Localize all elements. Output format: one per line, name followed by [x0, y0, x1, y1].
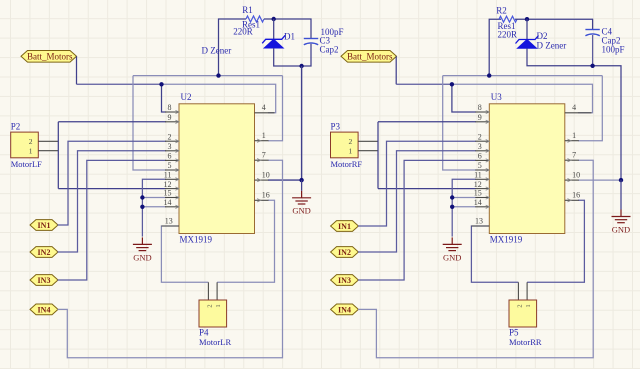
- wire U3 pin1 net horizontal: [443, 75, 603, 77]
- svg-text:5: 5: [168, 161, 172, 170]
- svg-text:1: 1: [262, 131, 266, 140]
- svg-text:MX1919: MX1919: [180, 234, 213, 244]
- svg-text:13: 13: [475, 217, 483, 226]
- wire U3 pin 15 branch: [452, 197, 476, 199]
- svg-text:D2: D2: [537, 31, 548, 41]
- IC U3 MX1919 body: [489, 104, 565, 234]
- U2 left pin numbers: [164, 103, 173, 225]
- wire R2 left leg riser: [489, 19, 501, 75]
- wire U3 pin1 net: drop to pin 5: [443, 76, 476, 170]
- svg-text:1: 1: [572, 131, 576, 140]
- svg-text:7: 7: [572, 150, 576, 159]
- svg-text:IN4: IN4: [338, 305, 351, 314]
- wire D2 cathode down and right: [527, 48, 621, 180]
- svg-text:14: 14: [164, 198, 172, 207]
- svg-text:IN3: IN3: [338, 276, 351, 285]
- wire P3 pin1 to U3 pin 12: [378, 188, 476, 190]
- junction D1 top junction: [272, 17, 276, 21]
- wire P2 riser (pins 2/1 vertical): [57, 122, 59, 189]
- port IN3 (l3): [30, 275, 58, 286]
- svg-text:1: 1: [349, 147, 353, 156]
- wire U2 pin 15 branch: [142, 197, 166, 199]
- wire P2 pin1 to U2 pin 12: [58, 188, 166, 190]
- wire Batt_Motors right: port drop: [395, 56, 397, 84]
- wire drop to U2 pin 10 and GND: [268, 66, 302, 180]
- port IN4 (r4p): [331, 304, 359, 315]
- svg-text:R1: R1: [242, 5, 253, 15]
- junction D2 top junction: [525, 17, 529, 21]
- svg-text:IN1: IN1: [38, 221, 51, 230]
- wire D1 cathode down and right: [274, 44, 311, 66]
- svg-text:2: 2: [478, 132, 482, 141]
- svg-text:7: 7: [262, 150, 266, 159]
- svg-text:GND: GND: [292, 206, 310, 216]
- wire D1 anode riser: [273, 19, 275, 39]
- P2 pin stubs: [38, 141, 58, 150]
- ground under U2 pin 10: [292, 191, 311, 204]
- svg-text:1: 1: [29, 147, 33, 156]
- connector P2: [11, 132, 39, 158]
- wire U2 pin 13 to P4 pin 2: [161, 226, 208, 282]
- svg-text:13: 13: [165, 217, 173, 226]
- wire R1 left leg riser: [219, 19, 247, 76]
- resistor R2: [499, 16, 517, 22]
- wire IN3 left to U2 pin 6: [58, 160, 167, 280]
- zener diode D1: [262, 35, 285, 48]
- svg-text:10: 10: [572, 170, 580, 179]
- svg-text:4: 4: [262, 103, 266, 112]
- svg-text:15: 15: [164, 189, 172, 198]
- svg-text:D1: D1: [284, 32, 295, 42]
- wire U3 pin 13 to P5 pin 2: [471, 226, 518, 282]
- connector P4: [199, 300, 227, 327]
- U2 right pin numbers: [262, 103, 270, 200]
- junction Batt/pin8 branch: [159, 82, 163, 86]
- svg-text:P4: P4: [199, 328, 209, 338]
- wire IN1 left to U2 pin 2: [58, 141, 167, 225]
- svg-text:8: 8: [478, 103, 482, 112]
- wire U2 pin1 net horizontal: [133, 75, 283, 77]
- svg-text:220R: 220R: [498, 30, 518, 40]
- svg-text:12: 12: [474, 180, 482, 189]
- wire IN1 right to U3 pin 2: [358, 141, 476, 226]
- svg-text:IN2: IN2: [38, 248, 51, 257]
- svg-text:Batt_Motors: Batt_Motors: [27, 51, 73, 61]
- wire Batt_Motors left: horizontal run: [77, 83, 162, 85]
- svg-text:2: 2: [207, 304, 214, 307]
- U3 right pin stubs and markers: [565, 113, 592, 202]
- svg-text:U2: U2: [181, 92, 192, 102]
- junction pin15 gnd junction: [140, 195, 144, 199]
- P4 pin 2 stub: [207, 282, 209, 300]
- svg-text:3: 3: [478, 142, 482, 151]
- svg-text:220R: 220R: [233, 26, 253, 36]
- svg-text:P2: P2: [11, 122, 21, 132]
- svg-text:D Zener: D Zener: [537, 40, 567, 50]
- U3 left pin stubs and markers: [471, 110, 489, 226]
- svg-text:15: 15: [474, 189, 482, 198]
- IC U2 MX1919 body: [179, 104, 255, 234]
- svg-text:4: 4: [572, 103, 576, 112]
- wire Batt_Motors right: across to pin-4 riser: [452, 84, 593, 113]
- port IN2 (r2p): [331, 247, 359, 258]
- svg-text:R2: R2: [496, 6, 507, 16]
- wire Batt_Motors left: port drop: [76, 56, 78, 84]
- svg-text:12: 12: [164, 180, 172, 189]
- svg-text:16: 16: [262, 191, 270, 200]
- svg-text:6: 6: [168, 152, 172, 161]
- wire IN2 left to U2 pin 3: [58, 151, 167, 252]
- wire U3 pin 16 to P5 pin 1: [527, 200, 584, 282]
- wire IN3 right to U3 pin 6: [358, 160, 476, 280]
- power port Batt_Motors (left): [21, 51, 77, 63]
- svg-text:6: 6: [478, 152, 482, 161]
- wire Batt_Motors right: drop to U3 pin 8: [452, 84, 476, 112]
- svg-text:3: 3: [168, 142, 172, 151]
- capacitor C3: [304, 39, 318, 45]
- wire Batt_Motors left: across to pin-4 riser: [162, 84, 276, 113]
- power port Batt_Motors (right): [341, 51, 397, 63]
- svg-text:9: 9: [478, 113, 482, 122]
- P5 pin 1 stub: [526, 282, 528, 300]
- svg-text:IN4: IN4: [38, 305, 51, 314]
- wire IN4 left to bottom rail to U2 pin 7: [58, 160, 283, 358]
- svg-text:MotorRR: MotorRR: [509, 337, 542, 347]
- svg-text:Batt_Motors: Batt_Motors: [347, 51, 393, 61]
- svg-text:2: 2: [517, 304, 524, 307]
- ground under U2 left: [133, 237, 152, 250]
- svg-text:16: 16: [572, 191, 580, 200]
- wire U3 pin 11 to gnd vertical: [452, 179, 476, 236]
- svg-text:D Zener: D Zener: [202, 46, 232, 56]
- svg-text:2: 2: [29, 137, 33, 146]
- junction R2 leg on pin1 net: [487, 73, 491, 77]
- wire U2 pin 14 branch: [142, 206, 166, 208]
- svg-text:11: 11: [474, 171, 482, 180]
- svg-text:IN1: IN1: [338, 222, 351, 231]
- junction Batt/pin8 branch right: [450, 82, 454, 86]
- wire D2 anode riser: [526, 19, 528, 39]
- wire U3 pin1 net: riser to pin 1: [578, 76, 602, 141]
- junction U2 pin10 junction: [299, 178, 303, 182]
- wire U3 pin 14 branch: [452, 206, 476, 208]
- wire R1 right to D1 and C3 top: [264, 19, 311, 38]
- svg-text:P5: P5: [509, 328, 519, 338]
- wire U2 pin 11 to gnd vertical: [142, 179, 166, 236]
- svg-text:1: 1: [525, 304, 532, 307]
- port IN4 (l4): [30, 304, 58, 315]
- junction pin14 gnd junction right: [450, 205, 454, 209]
- junction C4 bottom junction: [590, 64, 594, 68]
- port IN1 (l1): [30, 220, 58, 231]
- wire Batt_Motors right: horizontal run: [396, 83, 452, 85]
- wire GND stem under pin10: [301, 180, 303, 191]
- svg-text:Cap2: Cap2: [320, 45, 339, 55]
- junction U3 pin10 junction: [619, 178, 623, 182]
- wire U2 pin 16 to P4 pin 1: [217, 200, 274, 282]
- svg-text:5: 5: [478, 161, 482, 170]
- connector P5: [509, 300, 537, 327]
- svg-text:IN2: IN2: [338, 248, 351, 257]
- wire C4 bottom stem: [592, 35, 594, 66]
- svg-text:IN3: IN3: [38, 276, 51, 285]
- P4 pin 1 stub: [216, 282, 218, 300]
- svg-text:GND: GND: [612, 224, 630, 234]
- ground under U3 pin 10: [612, 210, 631, 223]
- svg-text:U3: U3: [491, 92, 502, 102]
- P5 pin 2 stub: [517, 282, 519, 300]
- svg-text:MotorLR: MotorLR: [199, 337, 231, 347]
- connector P3: [331, 132, 359, 158]
- svg-text:1: 1: [215, 304, 222, 307]
- svg-text:11: 11: [164, 171, 172, 180]
- wire U3 pin10 wire: [578, 179, 621, 181]
- U3 left pin numbers: [474, 103, 483, 225]
- svg-text:2: 2: [168, 132, 172, 141]
- junction pin15 gnd junction right: [450, 195, 454, 199]
- P3 pin stubs: [358, 141, 378, 150]
- wire P3 riser (pins 2/1 vertical): [377, 122, 379, 189]
- ground under U3 left: [443, 237, 462, 250]
- svg-text:9: 9: [168, 113, 172, 122]
- svg-text:MX1919: MX1919: [490, 234, 523, 244]
- svg-text:P3: P3: [331, 122, 341, 132]
- wire IN4 right to bottom rail to U3 pin 7: [358, 160, 593, 358]
- junction R1 leg on pin1 net: [216, 73, 220, 77]
- wire IN2 right to U3 pin 3: [358, 151, 476, 252]
- resistor R1: [246, 16, 264, 22]
- port IN2 (l2): [30, 247, 58, 258]
- svg-text:MotorRF: MotorRF: [331, 159, 363, 169]
- svg-text:100pF: 100pF: [602, 44, 625, 54]
- wire P2 pin2 to U2 pin 9: [58, 121, 166, 123]
- U3 right pin numbers: [572, 103, 580, 200]
- wire P3 pin2 to U3 pin 9: [378, 121, 476, 123]
- junction pin14 gnd junction: [140, 205, 144, 209]
- svg-text:10: 10: [262, 170, 270, 179]
- svg-text:8: 8: [168, 103, 172, 112]
- wire Batt_Motors left: drop to U2 pin 8: [162, 84, 167, 112]
- port IN3 (r3p): [331, 275, 359, 286]
- port IN1 (r1p): [331, 221, 359, 232]
- wire U2 pin1 net: riser to pin 1: [268, 76, 283, 141]
- svg-text:GND: GND: [443, 252, 461, 262]
- svg-text:2: 2: [349, 137, 353, 146]
- U2 left pin stubs and markers: [161, 110, 179, 226]
- U2 right pin stubs and markers: [255, 113, 275, 202]
- capacitor C4: [585, 30, 599, 36]
- svg-text:GND: GND: [133, 252, 151, 262]
- wire U2 pin1 net: drop to pin 5: [133, 76, 166, 170]
- wire R2 right to D2 and C4 top: [515, 19, 593, 29]
- svg-text:14: 14: [474, 198, 482, 207]
- zener diode D2: [516, 36, 539, 49]
- svg-text:MotorLF: MotorLF: [11, 159, 42, 169]
- wire GND stem under U3 pin10: [620, 180, 622, 209]
- junction gnd branch on D1 bottom: [299, 64, 303, 68]
